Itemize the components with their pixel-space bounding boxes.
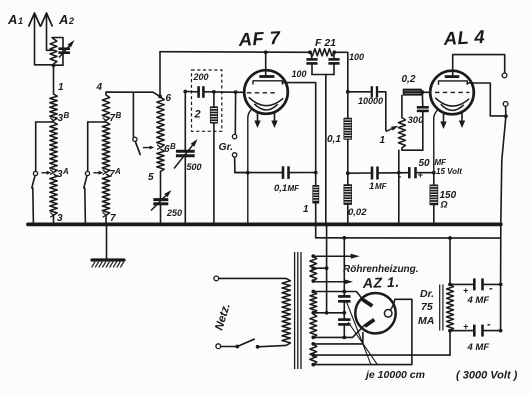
node smoothing cap A top [342, 290, 346, 294]
node B+ to choke [448, 236, 452, 240]
capacitor 300 [421, 92, 424, 107]
capacitor 0,1MF [235, 172, 283, 174]
coil 4 top lead [106, 92, 160, 96]
wire pot top to grid stopper [401, 96, 403, 118]
electrolytic capacitor 4MF lower [450, 330, 474, 332]
capacitor 100 right [333, 52, 335, 59]
node B+ to smoothing caps [342, 236, 346, 240]
AZ1 filament lead to top right [390, 299, 394, 310]
wire AF7 top cap stub [264, 50, 268, 54]
svg-text:Dr.: Dr. [420, 288, 434, 300]
coil 7B section [102, 95, 109, 121]
svg-text:0,2: 0,2 [402, 74, 416, 85]
svg-text:1: 1 [58, 82, 64, 93]
node tap 3A [51, 170, 54, 174]
coil section to terminal 7 [102, 174, 109, 215]
svg-text:6: 6 [166, 93, 172, 104]
svg-text:2: 2 [68, 16, 74, 26]
wire AL4 top cap line [453, 55, 505, 76]
node grid drop junction [234, 90, 238, 94]
wire joining 100 caps [312, 74, 334, 76]
AL4 heater arrow right [461, 113, 463, 123]
transformer core [294, 252, 296, 369]
heater winding 4V [310, 256, 317, 281]
capacitor 100 left [311, 52, 312, 59]
coil 3B section [50, 94, 57, 121]
filament centre tap B+ takeoff [311, 353, 315, 357]
heater lead upper with arrow [311, 254, 315, 258]
svg-text:5: 5 [148, 172, 154, 183]
node coil 2 top [212, 90, 216, 94]
terminal output upper [502, 73, 507, 78]
AL4 top cap electrode [445, 75, 460, 78]
wire coil 7 bottom to ground bus [105, 215, 107, 224]
trimmer capacitor across antenna coil [58, 47, 70, 50]
wire resistor 1 to B+ under-line (crosses bus) [315, 204, 317, 238]
terminal output lower [503, 102, 508, 107]
electrolytic capacitor 50MF 15Volt [399, 172, 409, 174]
resistor 0,2 (grid stopper) [403, 89, 422, 96]
wire smoothing column [343, 238, 345, 296]
svg-text:AZ 1.: AZ 1. [362, 274, 400, 291]
svg-text:A: A [62, 167, 69, 176]
svg-text:0,1: 0,1 [327, 134, 341, 145]
node output rail junction [504, 114, 508, 118]
HV winding lower half [310, 314, 317, 337]
capacitor 10000 [348, 91, 371, 93]
wire coil 5 to padder cap 250 [160, 171, 162, 199]
svg-text:1: 1 [369, 181, 374, 192]
wire AF7 anode lead [282, 83, 315, 173]
capacitor 10000cm B [338, 318, 350, 321]
wire coil 3 bottom to ground bus [53, 215, 55, 224]
AL4 control grid (dashed) [435, 91, 470, 93]
svg-text:( 3000 Volt ): ( 3000 Volt ) [456, 370, 518, 382]
HV centre tap [311, 311, 315, 315]
wave-change switch S2 [88, 121, 106, 123]
wire 0,02 to bus [347, 205, 349, 224]
capacitor 10000cm A [338, 295, 350, 298]
svg-text:+: + [418, 170, 424, 180]
svg-text:MF: MF [288, 184, 301, 193]
resistor 1 (anode load) [315, 173, 317, 186]
AZ1 filament lead bottom [362, 333, 364, 344]
node terminal 3 [51, 213, 54, 217]
coil 7A section [102, 122, 109, 173]
AF7 top cap electrode [259, 75, 274, 78]
node AF7 anode junction [314, 171, 318, 175]
svg-text:F 21: F 21 [315, 37, 336, 49]
node AL4 cathode junction [432, 171, 436, 175]
wire grid to Gr terminal [234, 92, 236, 134]
svg-text:300: 300 [408, 115, 425, 126]
variable tuning capacitor 500 [176, 150, 195, 153]
antenna A2 symbol [41, 13, 52, 26]
node screen tap [346, 90, 350, 94]
wire AL4 anode to output terminal [467, 83, 506, 116]
AF7 cathode arcs [249, 97, 283, 105]
capacitor 1MF [348, 172, 371, 174]
coil section to terminal 3 [50, 174, 57, 215]
svg-text:Gr.: Gr. [219, 141, 234, 153]
terminal mains lower [216, 344, 221, 349]
svg-text:4: 4 [96, 82, 103, 93]
filament lead lower [311, 363, 315, 367]
wire pot bottom [402, 148, 423, 150]
wire cap 200 to coil 2 top node [203, 91, 214, 93]
resistor 0,1 (Q1) [344, 118, 353, 140]
switch S1 contact stub to tap 3A [42, 172, 49, 174]
node cathode junction [246, 171, 250, 175]
wire coil 2 to bus [213, 124, 215, 224]
node pot return ground [397, 222, 401, 226]
terminal Gr lower [232, 153, 236, 157]
svg-text:MF: MF [375, 182, 388, 191]
node screen junction [346, 171, 350, 175]
svg-text:15 Volt: 15 Volt [436, 167, 462, 176]
wire heater CT ground drop [326, 224, 328, 312]
wire output rail to bus and HT rail [501, 116, 506, 330]
svg-text:200: 200 [193, 72, 209, 82]
capacitor 200 [185, 91, 198, 93]
svg-text:1: 1 [18, 16, 23, 26]
AZ1 anode plate 2 [365, 320, 375, 327]
svg-text:10000: 10000 [358, 96, 383, 106]
wire 150 ohm to bus [433, 205, 435, 223]
wire 0,2 to AL4 grid [422, 91, 430, 93]
switch S3 for coil 6 [132, 92, 134, 137]
node terminal 7 [103, 213, 106, 217]
svg-text:-: - [487, 319, 491, 331]
svg-text:Röhrenheizung.: Röhrenheizung. [343, 264, 419, 275]
coil 5 section [157, 149, 164, 171]
AZ1 filament loop [384, 310, 392, 318]
wire mains upper to transformer [219, 277, 287, 279]
mains switch [221, 346, 238, 348]
wave-change switch S1 [36, 121, 54, 123]
svg-text:je 10000 cm: je 10000 cm [364, 369, 425, 381]
svg-text:AF 7: AF 7 [237, 27, 282, 50]
pointer lines je 10000 cm [347, 303, 371, 365]
potentiometer wiper arrow [386, 129, 392, 132]
tube AF7 envelope [244, 70, 288, 114]
node coil 6 top junction [158, 95, 162, 99]
heater winding centre tap [311, 266, 315, 270]
transformer primary winding [282, 278, 290, 345]
svg-text:-: - [489, 283, 493, 295]
wire AL4 cathode down [434, 110, 438, 173]
svg-text:500: 500 [187, 162, 202, 172]
svg-text:0,1: 0,1 [274, 183, 287, 194]
svg-text:+: + [463, 322, 469, 332]
coil 2 [213, 92, 215, 107]
wire F21 right to screen line [334, 52, 348, 117]
AL4 cathode arcs [435, 98, 469, 106]
tube AL4 envelope [430, 71, 474, 115]
AL4 anode [439, 81, 468, 84]
svg-text:+: + [463, 286, 469, 296]
coil 3A section [50, 122, 57, 173]
svg-text:B: B [116, 111, 122, 120]
heater lead lower with arrow [311, 279, 315, 283]
node cap 500 top junction [183, 90, 187, 94]
coil 6 section [157, 97, 164, 147]
svg-text:AL 4: AL 4 [442, 26, 485, 49]
node HV centre tap column [342, 311, 346, 315]
svg-text:250: 250 [166, 208, 182, 218]
AF7 anode [253, 81, 282, 84]
wire grid top line [160, 51, 310, 54]
HV lower lead to anode 2 [311, 336, 315, 340]
svg-text:100: 100 [349, 52, 364, 62]
svg-text:Ω: Ω [440, 200, 448, 210]
wire caps junction to bus [325, 75, 327, 224]
antenna A1 symbol [29, 13, 40, 26]
choke core lines [439, 285, 441, 331]
ground bus [28, 222, 501, 226]
wire cap 250 to bus [160, 204, 162, 224]
switch S3 contact stub to tap 6B [144, 147, 152, 149]
electrolytic capacitor 4MF upper [450, 283, 474, 285]
wire B+ line under bus [316, 237, 501, 239]
svg-text:0,02: 0,02 [348, 207, 367, 218]
svg-text:MF: MF [435, 158, 448, 167]
svg-text:A: A [58, 12, 68, 27]
tube AZ1 envelope [355, 293, 395, 333]
wire AF7 cathode to bus [248, 110, 252, 224]
wire cap 500 top [184, 91, 186, 150]
node tap 7A [103, 170, 106, 174]
wire Gr lower to cathode line [235, 157, 248, 172]
svg-text:7: 7 [110, 213, 116, 224]
antenna coupling coil L-ant [52, 38, 63, 66]
wire choke bottom to filament CT [448, 329, 452, 333]
wire 10000 to pot wiper [377, 92, 386, 131]
wire grid node to AF7 [214, 91, 244, 93]
node antenna coil bottom junction [52, 64, 56, 68]
svg-text:MA: MA [418, 315, 434, 327]
dashed enclosure box [192, 70, 222, 131]
AL4 heater arrow left [443, 113, 445, 124]
AF7 heater arrow right [274, 113, 276, 123]
AF7 control grid (dashed) [247, 92, 277, 94]
svg-text:B: B [170, 142, 176, 151]
switch S2 contact stub to tap 7A [94, 172, 101, 174]
filament lead upper [311, 342, 315, 346]
svg-text:A: A [114, 167, 121, 176]
node AL4 grid junction [420, 90, 424, 94]
terminal Gr upper [232, 134, 236, 138]
svg-text:4 MF: 4 MF [467, 295, 490, 306]
HV winding upper half [310, 292, 317, 313]
ground symbol [106, 224, 108, 258]
node tap 6B [158, 145, 161, 149]
svg-text:2: 2 [194, 109, 201, 121]
HV upper lead to anode 1 [311, 290, 315, 294]
node tap 3B [51, 118, 54, 122]
resistor 150 ohm [433, 173, 435, 185]
potentiometer 1 element [398, 118, 405, 148]
svg-text:B: B [64, 111, 70, 120]
resistor 0,02 [344, 184, 353, 205]
wire B+ to choke top [449, 238, 451, 284]
svg-text:A: A [7, 12, 17, 27]
AF7 heater arrow left [257, 113, 259, 123]
wire top line corner to coil 6 [159, 52, 161, 97]
wire antenna to coil 1 [53, 65, 55, 94]
svg-text:1: 1 [303, 204, 309, 215]
svg-text:50: 50 [419, 158, 431, 169]
variable capacitor 250 [153, 198, 168, 201]
svg-text:3: 3 [57, 213, 63, 224]
wire Q1 to 1MF junction [347, 140, 349, 185]
svg-text:75: 75 [421, 301, 433, 313]
terminal mains upper [214, 276, 219, 281]
node tap 7B [103, 118, 106, 122]
wire cap 500 to bus [184, 156, 186, 224]
svg-text:100: 100 [292, 69, 307, 79]
node pot-return junction [397, 171, 401, 175]
choke Dr winding [447, 284, 454, 330]
svg-text:4 MF: 4 MF [467, 342, 490, 353]
AZ1 anode plate 1 [362, 299, 372, 306]
rectifier filament winding [310, 344, 317, 365]
svg-text:1: 1 [380, 135, 386, 146]
